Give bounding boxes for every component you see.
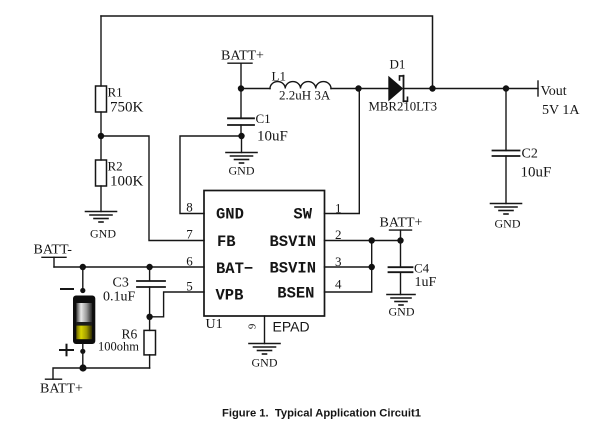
svg-text:R2: R2 — [108, 159, 123, 174]
svg-text:D1: D1 — [390, 57, 406, 72]
svg-text:GND: GND — [495, 217, 521, 231]
node R1/R2 junction — [98, 133, 104, 139]
svg-text:Vout: Vout — [541, 84, 567, 99]
wire BATT+ junction to L1 — [241, 88, 270, 90]
battery plus sign — [60, 345, 73, 356]
svg-text:C3: C3 — [113, 276, 129, 291]
svg-text:BSVIN: BSVIN — [269, 260, 316, 278]
svg-text:BSVIN: BSVIN — [269, 233, 316, 251]
wire EPAD to ground — [264, 316, 266, 344]
wire anode junction to diode — [359, 88, 389, 90]
svg-text:C4: C4 — [414, 261, 430, 276]
wire FB net: R1/R2 junction to pin 7 — [101, 136, 204, 241]
svg-text:2.2uH 3A: 2.2uH 3A — [279, 88, 331, 103]
battery BT1 — [73, 267, 95, 368]
wire R1 to R2 — [100, 112, 102, 160]
svg-text:BAT−: BAT− — [216, 260, 253, 278]
node BATT- terminal label — [34, 243, 73, 268]
svg-text:U1: U1 — [206, 317, 223, 332]
svg-text:EPAD: EPAD — [273, 319, 310, 335]
svg-text:GND: GND — [216, 206, 244, 224]
node pin3/vertical junction — [369, 264, 375, 270]
resistor R6 — [98, 317, 156, 368]
wire GND net: pin 8 to C1 bottom junction — [180, 136, 242, 214]
svg-text:8: 8 — [186, 200, 193, 215]
inductor L1 — [270, 69, 331, 103]
node BATT+ terminal at C4 — [380, 215, 423, 240]
node pin2/vertical junction — [369, 237, 375, 243]
ground below EPAD — [249, 344, 280, 370]
svg-text:BATT+: BATT+ — [380, 215, 423, 230]
wire BAT- net: BATT- terminal to pin 6 — [54, 266, 204, 268]
svg-text:BSEN: BSEN — [277, 285, 314, 303]
svg-text:1uF: 1uF — [415, 275, 437, 290]
wire C2 junction to Vout terminal — [506, 88, 538, 90]
wire pin 3 BSVIN stub — [325, 266, 372, 268]
svg-text:C2: C2 — [522, 147, 538, 162]
capacitor C2 — [493, 147, 552, 181]
capacitor C1 — [228, 111, 288, 145]
svg-text:GND: GND — [90, 227, 116, 241]
svg-text:GND: GND — [229, 164, 255, 178]
node Vout terminal label — [538, 81, 580, 118]
battery minus sign — [61, 288, 73, 290]
node C1 bottom / GND junction — [238, 133, 244, 139]
wire C2 to ground — [505, 156, 507, 204]
svg-text:GND: GND — [389, 305, 415, 319]
wire SW net: pin 1 to diode anode junction — [325, 89, 360, 214]
svg-text:BATT-: BATT- — [34, 243, 73, 258]
capacitor C3 — [103, 267, 165, 317]
wire C2 junction down to C2 — [505, 89, 507, 151]
node battery bottom junction — [79, 364, 86, 371]
wire R2 to ground — [100, 186, 102, 212]
resistor R2 — [96, 159, 144, 190]
node C2 junction — [503, 85, 509, 91]
wire BATT+ bottom net — [53, 368, 150, 379]
wire L1 to diode anode — [331, 88, 359, 90]
svg-text:4: 4 — [335, 277, 342, 292]
svg-text:5: 5 — [186, 279, 193, 294]
capacitor C4 — [389, 241, 437, 295]
svg-text:L1: L1 — [272, 69, 286, 84]
wire C1 to ground — [241, 136, 243, 153]
node cathode / top loop junction — [429, 85, 435, 91]
svg-text:C1: C1 — [256, 111, 271, 126]
svg-text:9: 9 — [247, 323, 259, 329]
svg-text:2: 2 — [335, 227, 342, 242]
ground below C1 — [226, 153, 257, 178]
node BATT+ / BSVIN label top — [221, 49, 264, 119]
svg-text:7: 7 — [186, 227, 193, 242]
svg-text:BATT+: BATT+ — [40, 382, 83, 397]
node SW / diode anode junction — [355, 85, 361, 91]
ground below C4 — [387, 295, 415, 319]
ground below R2 — [86, 212, 117, 241]
svg-text:BATT+: BATT+ — [221, 49, 264, 64]
svg-text:MBR210LT3: MBR210LT3 — [369, 100, 438, 114]
svg-text:100ohm: 100ohm — [98, 339, 139, 353]
node C3 top junction — [146, 264, 152, 270]
svg-text:100K: 100K — [110, 174, 144, 190]
op-amp U1 IC body — [204, 191, 325, 333]
wire pin 4 BSEN stub — [325, 241, 372, 293]
svg-text:10uF: 10uF — [521, 165, 552, 181]
wire R1 top column — [100, 16, 102, 86]
wire VPB net: pin 5 to C3/R6 junction — [150, 292, 204, 317]
node BATT+/L1/C1 junction — [238, 85, 244, 91]
svg-text:GND: GND — [252, 356, 278, 370]
svg-text:0.1uF: 0.1uF — [103, 290, 136, 305]
wire diode cathode to C2 junction — [404, 88, 507, 90]
svg-text:R1: R1 — [108, 85, 123, 100]
ground below C2 — [491, 204, 522, 231]
svg-text:6: 6 — [186, 254, 193, 269]
resistor R1 — [96, 85, 144, 116]
node BATT+ bottom terminal label — [40, 379, 83, 396]
node C3 bottom / VPB / R6 junction — [146, 314, 152, 320]
svg-text:VPB: VPB — [216, 287, 244, 305]
diode D1 (Schottky MBR210LT3) — [369, 57, 438, 114]
wire top feedback loop from R1 top to D1 cathode — [101, 16, 433, 89]
svg-text:FB: FB — [217, 233, 236, 251]
node battery top junction — [80, 264, 86, 270]
svg-text:5V 1A: 5V 1A — [542, 103, 580, 118]
svg-text:Figure 1. Typical Application: Figure 1. Typical Application Circuit1 — [222, 408, 421, 420]
svg-text:SW: SW — [293, 206, 312, 224]
wire pin 2 BSVIN to BATT+ terminal — [325, 240, 401, 242]
svg-text:750K: 750K — [110, 100, 144, 116]
node C4 top junction — [397, 237, 403, 243]
svg-text:10uF: 10uF — [257, 129, 288, 145]
